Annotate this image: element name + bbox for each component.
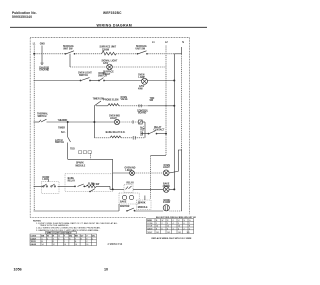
svg-text:12: 12 (53, 244, 55, 246)
svg-text:2: 2 (184, 228, 185, 230)
svg-text:14: 14 (64, 244, 66, 246)
svg-text:TDO: TDO (70, 149, 75, 151)
svg-text:2: 2 (162, 223, 163, 225)
svg-text:MODULE: MODULE (76, 166, 86, 168)
svg-text:SWITCH: SWITCH (38, 116, 47, 118)
svg-text:COLR: COLR (147, 226, 153, 228)
svg-text:8: 8 (156, 228, 157, 230)
svg-text:TEMP: TEMP (147, 232, 153, 234)
svg-text:14: 14 (42, 244, 44, 246)
svg-text:1056: 1056 (14, 267, 22, 271)
svg-text:8: 8 (81, 238, 82, 240)
svg-text:BLK WHT RED ORN BLU BRN GRN GR: BLK WHT RED ORN BLU BRN GRN GRY VIO (156, 217, 197, 219)
svg-text:3: 3 (53, 238, 54, 240)
svg-text:LIGHT: LIGHT (163, 167, 170, 169)
svg-text:5995350340: 5995350340 (12, 15, 32, 19)
svg-text:SWITCH: SWITCH (98, 76, 107, 78)
svg-text:IGNITOR: IGNITOR (120, 206, 130, 208)
svg-text:BAKE: BAKE (120, 201, 127, 204)
svg-text:THERMO: THERMO (58, 120, 68, 122)
svg-text:LIGHT: LIGHT (126, 170, 133, 172)
svg-text:PROBE ELEM: PROBE ELEM (104, 99, 119, 101)
svg-text:7: 7 (75, 238, 76, 240)
svg-text:COLR: COLR (31, 238, 37, 240)
svg-text:3410W: 3410W (163, 201, 171, 204)
svg-text:LK SW: LK SW (92, 184, 100, 186)
svg-text:1: 1 (42, 238, 43, 240)
svg-text:6: 6 (69, 238, 70, 240)
svg-text:7: 7 (189, 223, 190, 225)
svg-text:4: 4 (58, 238, 59, 240)
svg-text:GAGE: GAGE (31, 243, 37, 246)
svg-text:REPLACE WIRES ONLY WITH 105 C: REPLACE WIRES ONLY WITH 105 C WIRE (152, 237, 193, 240)
svg-text:6: 6 (167, 228, 168, 230)
svg-text:CODE: CODE (147, 223, 153, 225)
svg-text:UNIT SW: UNIT SW (63, 49, 73, 51)
svg-text:9: 9 (86, 238, 87, 240)
svg-text:BOARD: BOARD (138, 112, 147, 115)
svg-text:2585W: 2585W (163, 186, 171, 188)
svg-text:8: 8 (189, 226, 190, 228)
svg-text:WIRE COLOR CODE TABLE: WIRE COLOR CODE TABLE (47, 232, 73, 235)
svg-text:120V: 120V (103, 63, 109, 65)
svg-text:MODULE: MODULE (138, 207, 148, 209)
svg-text:14: 14 (75, 244, 77, 246)
svg-text:SPARK: SPARK (76, 161, 84, 164)
svg-text:SWITCH: SWITCH (79, 75, 88, 77)
svg-text:RELAY: RELAY (127, 182, 135, 185)
svg-text:W: W (162, 220, 164, 222)
svg-text:5: 5 (178, 223, 179, 225)
svg-text:WIRE: WIRE (147, 220, 153, 222)
svg-text:GND: GND (40, 44, 45, 46)
svg-text:12: 12 (167, 226, 169, 228)
svg-text:105: 105 (156, 232, 159, 234)
svg-text:N.C.: N.C. (61, 132, 66, 134)
svg-text:10: 10 (178, 226, 180, 228)
svg-text:4: 4 (178, 228, 179, 230)
svg-text:2: 2 (189, 228, 190, 230)
svg-text:105: 105 (178, 232, 181, 234)
svg-text:105: 105 (187, 232, 190, 234)
svg-text:10: 10 (104, 267, 108, 271)
svg-text:LIGHT: LIGHT (110, 118, 117, 120)
svg-text:CONTACT: CONTACT (154, 129, 165, 132)
svg-text:0: 0 (92, 238, 93, 240)
svg-text:RELAY: RELAY (68, 180, 76, 183)
svg-text:4: 4 (173, 228, 174, 230)
svg-text:2350W: 2350W (102, 49, 110, 51)
svg-text:LOCK: LOCK (43, 179, 50, 181)
svg-text:1: 1 (156, 223, 157, 225)
svg-text:16: 16 (86, 244, 88, 246)
svg-text:SPARK: SPARK (138, 201, 146, 204)
svg-text:TIMER: TIMER (58, 128, 65, 130)
svg-text:CODE: CODE (31, 236, 37, 238)
svg-text:WEF352BC: WEF352BC (103, 11, 122, 15)
svg-text:2: 2 (47, 238, 48, 240)
svg-text:6: 6 (162, 228, 163, 230)
svg-text:ALT: ALT (140, 129, 145, 132)
svg-text:105: 105 (167, 232, 170, 234)
svg-text:TRCR: TRCR (31, 241, 37, 243)
svg-text:SWITCH: SWITCH (55, 142, 64, 144)
svg-text:SURFACE UNIT: SURFACE UNIT (100, 46, 117, 49)
svg-text:3: 3 (167, 223, 168, 225)
svg-text:2 98063 P13: 2 98063 P13 (108, 242, 123, 246)
svg-text:VALVE: VALVE (121, 98, 129, 101)
svg-text:WIRING DIAGRAM: WIRING DIAGRAM (97, 23, 132, 27)
svg-text:14: 14 (156, 226, 158, 228)
svg-text:UNIT SW: UNIT SW (136, 49, 146, 51)
svg-text:GAGE: GAGE (147, 227, 153, 230)
svg-text:W: W (47, 236, 49, 238)
svg-text:5: 5 (64, 238, 65, 240)
svg-text:6: 6 (184, 223, 185, 225)
svg-text:LAMP: LAMP (139, 76, 146, 79)
svg-text:GROUND: GROUND (39, 70, 49, 72)
svg-text:4: 4 (173, 223, 174, 225)
svg-text:BAKE RELAY N.O.: BAKE RELAY N.O. (106, 131, 126, 134)
